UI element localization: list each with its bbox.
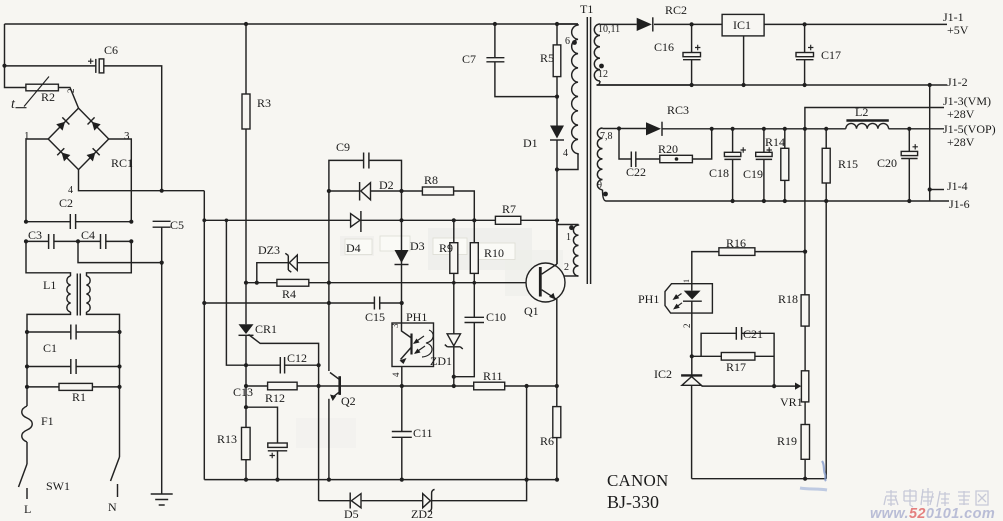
wire left column xyxy=(5,24,26,88)
svg-text:ZD2: ZD2 xyxy=(411,507,433,521)
wire rail to primary top xyxy=(557,23,578,25)
wire VR1 to R19 xyxy=(804,402,806,425)
node C3 left xyxy=(24,239,28,243)
svg-text:R14: R14 xyxy=(765,135,785,149)
svg-text:12: 12 xyxy=(598,69,608,80)
svg-text:CANON: CANON xyxy=(607,471,668,490)
svg-text:R2: R2 xyxy=(41,90,55,104)
node column318 / R12 line xyxy=(317,384,321,388)
node base rail / column329 xyxy=(327,281,331,285)
resistor R12 xyxy=(268,382,298,390)
wire CR1 gate xyxy=(249,335,319,366)
wire L1 right bottom to lower box xyxy=(87,312,120,332)
thyristor CR1 xyxy=(245,283,247,325)
PH1 phototransistor xyxy=(402,323,411,338)
shunt regulator IC2 xyxy=(681,374,702,376)
svg-text:C6: C6 xyxy=(104,43,118,57)
node J1-6 / R14 xyxy=(783,199,787,203)
svg-text:DZ3: DZ3 xyxy=(258,243,280,257)
capacitor C5 xyxy=(153,221,171,227)
capacitor C21 xyxy=(736,327,741,340)
node C1b right xyxy=(117,364,121,368)
node bus / R10 R8 xyxy=(472,218,476,222)
resistor R1 xyxy=(59,383,92,390)
diode D2 xyxy=(361,183,371,200)
wire secondary 12 to J1-2 line xyxy=(597,81,692,85)
T1 secondary winding pins 7-9 xyxy=(597,128,602,190)
capacitor C3 xyxy=(49,234,54,249)
node C2 left xyxy=(24,220,28,224)
node bus left corner xyxy=(202,218,206,222)
svg-text:C12: C12 xyxy=(287,351,307,365)
svg-text:RC3: RC3 xyxy=(667,103,689,117)
node C13 / bottom bus xyxy=(275,478,279,482)
T1 feedback phase dot xyxy=(569,225,574,230)
wire C22 branch down xyxy=(619,129,631,160)
resistor R18 xyxy=(801,295,809,326)
switch SW1 left pole xyxy=(19,464,28,487)
svg-text:C2: C2 xyxy=(59,196,73,210)
capacitor C9 xyxy=(364,153,369,169)
wire IC1 center pin xyxy=(743,36,745,85)
wire R20 right riser xyxy=(692,129,711,159)
svg-text:+28V: +28V xyxy=(947,107,975,121)
wire C10 down to ZD1 xyxy=(454,323,475,377)
svg-text:R17: R17 xyxy=(726,360,746,374)
diode RC1 top-left xyxy=(56,117,70,131)
svg-text:J1-1: J1-1 xyxy=(943,10,964,24)
wire IC2 cathode down xyxy=(691,385,693,478)
wire R17 line xyxy=(692,355,774,357)
inductor L2 xyxy=(846,123,889,128)
resistor R7 xyxy=(495,216,520,224)
L2 core bar xyxy=(846,119,888,121)
ground xyxy=(151,494,173,505)
svg-text:N: N xyxy=(108,500,117,514)
svg-text:www.520101.com: www.520101.com xyxy=(870,506,995,521)
node R12 left xyxy=(244,384,248,388)
svg-text:J1-2: J1-2 xyxy=(947,75,968,89)
inductor L1 right winding xyxy=(87,276,91,312)
zener ZD2 xyxy=(423,494,431,508)
wire C12 right lead xyxy=(285,364,319,366)
wire secondary 7 top xyxy=(603,128,620,130)
svg-text:Q1: Q1 xyxy=(524,304,539,318)
svg-text:J1-5(VOP): J1-5(VOP) xyxy=(943,122,996,136)
svg-text:7,8: 7,8 xyxy=(600,131,613,142)
node J1-6 / C19 xyxy=(762,199,766,203)
node J1-2 / C16 xyxy=(690,83,694,87)
svg-text:4: 4 xyxy=(563,148,568,159)
resistor R11 xyxy=(474,382,505,390)
capacitor C20 xyxy=(901,151,917,155)
wire C19 leads xyxy=(763,129,765,201)
node C1a left xyxy=(25,330,29,334)
svg-text:IC1: IC1 xyxy=(733,18,751,32)
capacitor C6 xyxy=(95,59,97,73)
svg-text:BJ-330: BJ-330 xyxy=(607,492,659,512)
svg-text:+28V: +28V xyxy=(947,135,975,149)
svg-text:IC2: IC2 xyxy=(654,367,672,381)
node column329 / C15 line xyxy=(327,301,331,305)
node J1-4 xyxy=(928,187,932,191)
diode RC1 bottom-right xyxy=(86,148,100,162)
T1 primary phase dot xyxy=(572,40,577,45)
svg-text:L: L xyxy=(24,502,31,516)
node J1-6 / C18 xyxy=(731,199,735,203)
svg-text:R11: R11 xyxy=(483,369,503,383)
wire C21 branch xyxy=(701,333,774,386)
zener DZ3 xyxy=(289,255,297,270)
switch SW1 right pole xyxy=(111,457,120,481)
svg-text:3: 3 xyxy=(390,323,400,328)
svg-text:C7: C7 xyxy=(462,52,476,66)
node left column / C6 xyxy=(2,64,6,68)
svg-text:SW1: SW1 xyxy=(46,479,70,493)
wire C18 leads xyxy=(732,129,734,201)
node J1-5 / C18 xyxy=(731,127,735,131)
wire column 401.5 D2 to PH1 pin3 xyxy=(401,191,403,323)
svg-text:R15: R15 xyxy=(838,157,858,171)
node primary pin4 junction xyxy=(555,167,559,171)
wire to fuse xyxy=(26,387,28,406)
svg-text:PH1: PH1 xyxy=(406,310,427,324)
wire box left down to L1 xyxy=(26,241,71,276)
wire ZD1 down xyxy=(453,347,455,386)
wire C11 down xyxy=(401,437,403,479)
resistor R8 xyxy=(422,187,453,195)
wire R3 column xyxy=(245,24,247,283)
wire C20 leads xyxy=(908,129,910,201)
transistor Q1 xyxy=(526,263,565,302)
svg-text:R16: R16 xyxy=(726,236,746,250)
wire J1-4 stub xyxy=(930,189,944,191)
wire C22 to R20 xyxy=(636,158,660,160)
svg-text:J1-4: J1-4 xyxy=(947,179,968,193)
node bus / column226 xyxy=(225,219,229,223)
wire feedback pin2 to Q1 xyxy=(564,275,578,277)
node R6 / bottom bus xyxy=(555,478,559,482)
optocoupler PH1 photo side box xyxy=(392,323,434,367)
diode RC1 bottom-left xyxy=(57,148,71,162)
watermark CJK row (pseudo glyphs) xyxy=(884,488,988,507)
wire C3 C4 line xyxy=(26,240,131,242)
wire J1-2 line xyxy=(597,84,948,86)
resistor R5 xyxy=(553,45,561,77)
wire C13 leads xyxy=(246,407,278,479)
T1 secondary 10-11 phase dot xyxy=(599,64,604,69)
node C13 line / R3col xyxy=(244,405,248,409)
resistor R15 xyxy=(822,148,830,183)
node R1 right xyxy=(117,385,121,389)
node rail / R5 xyxy=(555,22,559,26)
wire C16 leads xyxy=(691,24,693,85)
svg-text:1: 1 xyxy=(682,279,691,283)
svg-text:C20: C20 xyxy=(877,156,897,170)
node base rail / R10 xyxy=(473,281,477,285)
wire Q2 emitter down xyxy=(328,399,330,480)
wire RC1 pin4 line to right xyxy=(79,170,205,191)
wire column 226.4 bus to C12 xyxy=(226,220,280,365)
node J1-5 / R15 xyxy=(824,127,828,131)
svg-text:CR1: CR1 xyxy=(255,322,277,336)
capacitor C19 xyxy=(756,152,772,156)
svg-text:ZD1: ZD1 xyxy=(430,354,452,368)
node R1 left xyxy=(25,385,29,389)
rectifier RC1 bridge frame xyxy=(48,108,108,170)
svg-text:C16: C16 xyxy=(654,40,674,54)
node J1-6 / R15 xyxy=(824,199,828,203)
svg-text:C15: C15 xyxy=(365,310,385,324)
T1 feedback winding pins 1-2 xyxy=(573,225,578,277)
svg-text:PH1: PH1 xyxy=(638,292,659,306)
capacitor C10 xyxy=(465,317,485,322)
svg-text:RC2: RC2 xyxy=(665,3,687,17)
node J1-1 / C17 xyxy=(803,22,807,26)
node 7.8 line / C22 branch xyxy=(617,126,621,130)
node R5 bottom / C7 xyxy=(555,95,559,99)
svg-text:R19: R19 xyxy=(777,434,797,448)
wire secondary 9 to J1-6 line xyxy=(603,190,950,201)
wire R16 line xyxy=(692,252,805,284)
wire D1 to collector column xyxy=(556,140,558,264)
svg-text:2: 2 xyxy=(682,324,692,329)
svg-text:C3: C3 xyxy=(28,228,42,242)
capacitor C1 upper xyxy=(71,325,76,340)
wire R5 leads xyxy=(556,24,558,126)
node R11 line / emitter column xyxy=(555,384,559,388)
wire column329 C9 to Q2 xyxy=(328,191,330,371)
wire column318 down through bus to D5 loop xyxy=(318,365,320,501)
wire D5 ZD2 loop xyxy=(319,386,527,501)
svg-text:C10: C10 xyxy=(486,310,506,324)
node R16 right / R18 column xyxy=(803,250,807,254)
node base rail / R3 xyxy=(244,281,248,285)
capacitor C7 xyxy=(486,58,504,62)
node rail / R3 xyxy=(244,22,248,26)
svg-text:C5: C5 xyxy=(170,218,184,232)
PH1 led light arrows xyxy=(675,294,682,299)
node C4 right xyxy=(129,239,133,243)
wire R8 right to bus xyxy=(454,191,475,220)
node J1-1 / C16 xyxy=(690,22,694,26)
svg-text:C22: C22 xyxy=(626,165,646,179)
node J1-2 / J1-4 column xyxy=(928,83,932,87)
svg-text:J1-3(VM): J1-3(VM) xyxy=(943,94,991,108)
node C15 line / PH1 pin3 xyxy=(400,301,404,305)
VR1 wiper arrow xyxy=(795,383,801,390)
transformer T1 core xyxy=(587,17,590,284)
node J1-5 / C19 xyxy=(762,127,766,131)
wire top DC+ rail xyxy=(5,23,579,25)
wire RC1 pin3 lead xyxy=(109,139,132,222)
wire box right down to L1 xyxy=(87,241,132,276)
node C12 line / R3col xyxy=(244,363,248,367)
node loop / bottom bus xyxy=(525,478,529,482)
wire D2 line xyxy=(329,190,423,192)
wire PH1 pin2 column xyxy=(691,313,693,375)
svg-text:R10: R10 xyxy=(484,246,504,260)
node ZD1 / C10 join xyxy=(452,375,456,379)
node R13 / bottom bus xyxy=(244,478,248,482)
node R11 right / down column xyxy=(525,384,529,388)
wire CR1 anode down xyxy=(245,335,247,427)
node C21 R17 right / ref line xyxy=(772,384,776,388)
diode RC2 xyxy=(637,18,652,31)
svg-text:C4: C4 xyxy=(81,228,95,242)
optocoupler PH1 led side box xyxy=(665,284,712,313)
wire C2 line xyxy=(26,221,131,223)
svg-text:R8: R8 xyxy=(424,173,438,187)
wire main bus y220 xyxy=(204,219,557,221)
svg-text:R6: R6 xyxy=(540,434,554,448)
svg-text:Q2: Q2 xyxy=(341,394,356,408)
resistor R3 xyxy=(242,94,250,129)
inductor L1 left winding xyxy=(67,276,71,312)
svg-text:9: 9 xyxy=(597,180,602,191)
transistor Q2 xyxy=(338,376,341,395)
svg-text:4: 4 xyxy=(68,185,73,196)
faint scan tint patches xyxy=(428,228,532,270)
node J1-5 / R14 xyxy=(783,127,787,131)
capacitor C13 xyxy=(268,443,287,447)
svg-text:R9: R9 xyxy=(439,241,453,255)
wire C6 right lead to C5 column xyxy=(104,66,162,191)
svg-text:R18: R18 xyxy=(778,292,798,306)
svg-text:C9: C9 xyxy=(336,140,350,154)
svg-text:C19: C19 xyxy=(743,167,763,181)
resistor R6 xyxy=(553,407,561,438)
svg-text:2: 2 xyxy=(564,262,569,273)
capacitor C2 xyxy=(70,214,75,229)
node C5 column / doubler mid line xyxy=(160,261,164,265)
node J1-2 / C17 xyxy=(803,83,807,87)
svg-text:R4: R4 xyxy=(282,287,296,301)
node J1-5 / R20 riser xyxy=(710,127,714,131)
node R11 line / PH1 pin4 xyxy=(400,384,404,388)
resistor R19 xyxy=(801,425,809,460)
resistor R16 xyxy=(719,248,755,256)
T1 secondary 7-8 phase dot xyxy=(603,192,608,197)
svg-text:J1-6: J1-6 xyxy=(949,197,970,211)
wire PH1 pin4 down xyxy=(401,367,403,432)
wire C7 leads xyxy=(495,24,557,97)
node ground line / R19 xyxy=(803,477,807,481)
node column204 / C15 line xyxy=(202,301,206,305)
diode D4 xyxy=(351,214,360,227)
svg-text:R5: R5 xyxy=(540,51,554,65)
wire Q1 collector column xyxy=(556,220,558,264)
wire J1-1 rail xyxy=(600,23,947,25)
zener ZD1 xyxy=(447,334,460,346)
svg-text:6: 6 xyxy=(565,36,570,47)
diode RC3 xyxy=(646,122,661,135)
wire R2 right lead to bridge pin2 xyxy=(58,88,78,109)
node C1b left xyxy=(25,364,29,368)
svg-text:R20: R20 xyxy=(658,142,678,156)
wire C9 branch xyxy=(329,160,402,191)
wire R6 bottom xyxy=(556,438,558,480)
capacitor C12 xyxy=(280,357,284,374)
node bus / column401 xyxy=(399,218,403,222)
wire J1-3 column down xyxy=(804,129,806,295)
node C11 / bottom bus xyxy=(400,478,404,482)
wire regulator ground line xyxy=(692,478,827,480)
wire C6 left lead xyxy=(5,65,96,67)
capacitor C15 xyxy=(374,297,379,310)
capacitor C22 xyxy=(631,152,636,168)
svg-text:L2: L2 xyxy=(855,105,868,119)
diode D1 xyxy=(550,126,564,139)
capacitor C18 xyxy=(724,152,740,156)
svg-text:L1: L1 xyxy=(43,278,56,292)
svg-text:C21: C21 xyxy=(743,327,763,341)
svg-text:1: 1 xyxy=(566,232,571,243)
wire IC2 ref line to VR1 wiper xyxy=(701,385,795,387)
wire R12 R11 base line of Q2 xyxy=(246,385,557,387)
fuse F1 xyxy=(22,406,33,442)
capacitor C1 lower xyxy=(71,359,76,374)
svg-text:RC1: RC1 xyxy=(111,156,133,170)
wire bottom bus xyxy=(204,479,557,481)
svg-text:R12: R12 xyxy=(265,391,285,405)
wire fuse to switch xyxy=(26,442,28,464)
PH1 light arrows xyxy=(414,336,424,343)
resistor R14 xyxy=(781,148,789,180)
wire R14 leads xyxy=(784,129,786,201)
node J1-5 / C20 xyxy=(907,127,911,131)
node rail / C7 xyxy=(493,22,497,26)
svg-text:C17: C17 xyxy=(821,48,841,62)
resistor R20 xyxy=(660,155,693,162)
svg-text:4: 4 xyxy=(391,372,401,377)
wire C17 leads xyxy=(804,24,806,85)
wire primary pin4 to D1 column xyxy=(557,154,578,170)
wire L1 left bottom to lower box xyxy=(27,312,71,332)
PH1 led xyxy=(684,291,701,300)
wire C1 upper line xyxy=(27,331,120,333)
svg-text:VR1: VR1 xyxy=(780,395,803,409)
T1 secondary winding pins 10-12 xyxy=(594,24,600,81)
capacitor C16 xyxy=(683,53,701,57)
wire doubler midpoint to C5 column xyxy=(78,241,162,262)
wire C5 column down to ground xyxy=(161,227,163,494)
wire R10 leads xyxy=(473,220,475,317)
wire R15 leads xyxy=(825,129,827,479)
wire R18 to VR1 xyxy=(804,326,806,371)
blue pen mark xyxy=(822,461,826,481)
wire box sides xyxy=(27,332,120,387)
L1 core xyxy=(77,274,80,316)
svg-text:D4: D4 xyxy=(346,241,361,255)
svg-text:R3: R3 xyxy=(257,96,271,110)
wire column 204.5 xyxy=(203,191,205,480)
regulator IC1 xyxy=(722,14,764,36)
wire J1-3 line xyxy=(805,108,944,130)
wire R13 bottom xyxy=(245,460,247,480)
node R11 line / ZD1 xyxy=(452,384,456,388)
resistor R4 xyxy=(277,279,309,286)
svg-text:F1: F1 xyxy=(41,414,54,428)
wire Q1 emitter column xyxy=(556,299,558,407)
svg-text:C1: C1 xyxy=(43,341,57,355)
wire R9 leads xyxy=(453,220,455,333)
node C2 right xyxy=(129,220,133,224)
node base rail / DZ3 branch xyxy=(255,281,259,285)
wire J1-5 line xyxy=(619,128,944,130)
resistor R10 xyxy=(470,243,478,274)
svg-text:R1: R1 xyxy=(72,390,86,404)
